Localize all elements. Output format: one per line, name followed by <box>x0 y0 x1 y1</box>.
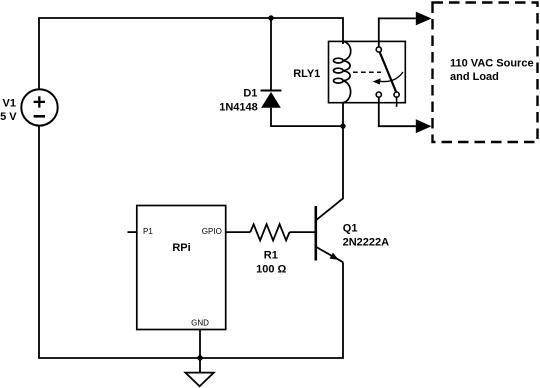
svg-text:RLY1: RLY1 <box>293 68 320 80</box>
relay coil <box>334 41 351 102</box>
transistor Q1 <box>316 206 343 262</box>
RPi box <box>137 206 226 330</box>
svg-text:V1: V1 <box>3 98 16 110</box>
svg-text:110 VAC Source: 110 VAC Source <box>450 57 534 69</box>
svg-text:GPIO: GPIO <box>202 227 222 236</box>
svg-text:and Load: and Load <box>450 71 499 83</box>
resistor R1 <box>250 224 289 240</box>
wire collector from node down to transistor <box>317 126 344 220</box>
wire GND pin down to ground rail <box>199 330 201 359</box>
node ground junction <box>197 355 202 360</box>
wire V1 bottom to ground rail <box>39 126 343 358</box>
wire NC contact down to bottom load arrow <box>379 97 416 126</box>
wire switch common to top load arrow <box>379 18 416 47</box>
wire junction to ground symbol <box>199 358 201 373</box>
wire relay coil bottom to node <box>342 103 344 126</box>
svg-text:GND: GND <box>191 319 209 328</box>
relay blade stub below NO contact <box>396 97 398 107</box>
wire diode anode to coil/collector node <box>271 108 343 126</box>
110 VAC dashed box <box>433 3 538 143</box>
relay actuation arrow <box>373 72 403 85</box>
node diode tap on top rail <box>268 15 273 20</box>
relay RLY1 box <box>329 41 406 102</box>
voltage source V1 <box>21 89 57 125</box>
svg-text:5 V: 5 V <box>0 111 17 123</box>
relay mechanical link dashed <box>353 71 381 73</box>
svg-text:100 Ω: 100 Ω <box>256 263 286 275</box>
arrow to load top <box>416 12 432 26</box>
node coil/diode/collector junction <box>340 123 345 128</box>
wire base from resistor to transistor <box>290 231 316 233</box>
arrow to load bottom <box>416 119 432 133</box>
wire P1 pin stub <box>128 231 137 233</box>
svg-text:1N4148: 1N4148 <box>219 101 258 113</box>
wire GPIO pin to resistor <box>226 231 251 233</box>
wire diode branch down from top rail <box>270 18 272 91</box>
svg-text:P1: P1 <box>143 227 153 236</box>
relay switch blade <box>380 52 397 92</box>
svg-text:RPi: RPi <box>172 242 190 254</box>
relay contact NC bottom left <box>376 92 381 97</box>
svg-text:D1: D1 <box>243 87 257 99</box>
diode D1 <box>261 91 282 108</box>
relay contact common top <box>376 47 381 52</box>
svg-text:R1: R1 <box>264 249 278 261</box>
svg-text:Q1: Q1 <box>343 222 358 234</box>
svg-text:2N2222A: 2N2222A <box>343 237 390 249</box>
relay contact NO bottom right <box>394 92 399 97</box>
ground <box>185 373 213 387</box>
wire top rail from V1 to relay coil <box>39 18 343 89</box>
